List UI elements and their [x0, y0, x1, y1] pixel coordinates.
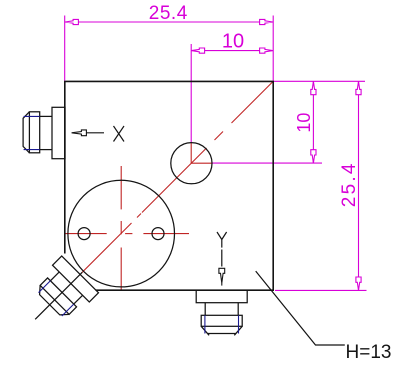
svg-text:25.4: 25.4 — [339, 161, 360, 207]
svg-text:10: 10 — [222, 30, 244, 52]
svg-text:H=13: H=13 — [346, 342, 392, 363]
svg-text:25.4: 25.4 — [149, 3, 188, 24]
svg-text:10: 10 — [294, 113, 314, 133]
